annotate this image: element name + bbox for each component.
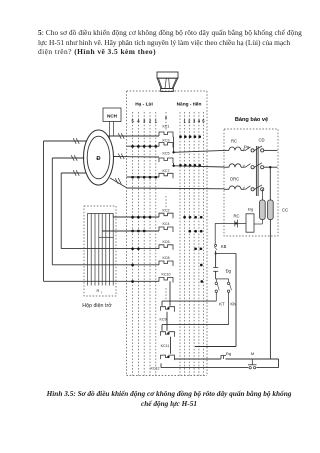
svg-text:Hộp điện trở: Hộp điện trở xyxy=(82,302,112,309)
svg-text:KC4: KC4 xyxy=(163,222,170,226)
svg-text:KT: KT xyxy=(219,301,225,306)
svg-text:KC6: KC6 xyxy=(163,240,170,244)
svg-text:KC1: KC1 xyxy=(163,125,170,129)
svg-text:M: M xyxy=(251,351,254,356)
svg-text:Hạ - Lùi: Hạ - Lùi xyxy=(135,102,153,108)
svg-text:NCH: NCH xyxy=(107,114,117,119)
svg-text:2: 2 xyxy=(188,119,191,124)
svg-text:KC10: KC10 xyxy=(162,273,171,277)
svg-text:5: 5 xyxy=(131,119,134,124)
svg-text:KC7: KC7 xyxy=(163,169,170,173)
svg-text:3: 3 xyxy=(193,119,196,124)
svg-text:KC11: KC11 xyxy=(161,344,170,348)
svg-text:f: f xyxy=(101,291,102,295)
svg-text:3: 3 xyxy=(143,119,146,124)
svg-text:Đg: Đg xyxy=(226,351,231,356)
svg-text:CD: CD xyxy=(258,138,264,143)
svg-text:RC: RC xyxy=(233,214,239,219)
svg-text:CC: CC xyxy=(282,208,288,213)
svg-text:KC2: KC2 xyxy=(163,208,170,212)
svg-text:Đg: Đg xyxy=(244,144,249,149)
svg-text:R: R xyxy=(97,288,100,293)
svg-text:KC9: KC9 xyxy=(160,317,167,321)
svg-text:KC8: KC8 xyxy=(163,256,170,260)
svg-text:Đ: Đ xyxy=(96,156,100,162)
svg-text:KC5: KC5 xyxy=(163,152,170,156)
svg-text:Nâng - tiến: Nâng - tiến xyxy=(177,101,202,108)
svg-text:ORC: ORC xyxy=(230,177,239,182)
svg-text:KN: KN xyxy=(230,301,236,306)
svg-text:0: 0 xyxy=(165,115,167,120)
svg-text:1: 1 xyxy=(183,119,186,124)
svg-text:Đg: Đg xyxy=(248,207,253,212)
svg-text:4: 4 xyxy=(137,119,140,124)
svg-text:2: 2 xyxy=(149,119,152,124)
svg-text:5: 5 xyxy=(202,119,205,124)
svg-text:RC: RC xyxy=(231,139,237,144)
svg-text:Bảng bảo vệ: Bảng bảo vệ xyxy=(235,117,268,123)
svg-text:KB: KB xyxy=(221,244,227,249)
svg-text:KC12: KC12 xyxy=(151,367,160,371)
svg-text:4: 4 xyxy=(198,119,201,124)
svg-text:1: 1 xyxy=(155,119,158,124)
svg-text:Đg: Đg xyxy=(226,269,232,274)
svg-text:KC3: KC3 xyxy=(163,139,170,143)
